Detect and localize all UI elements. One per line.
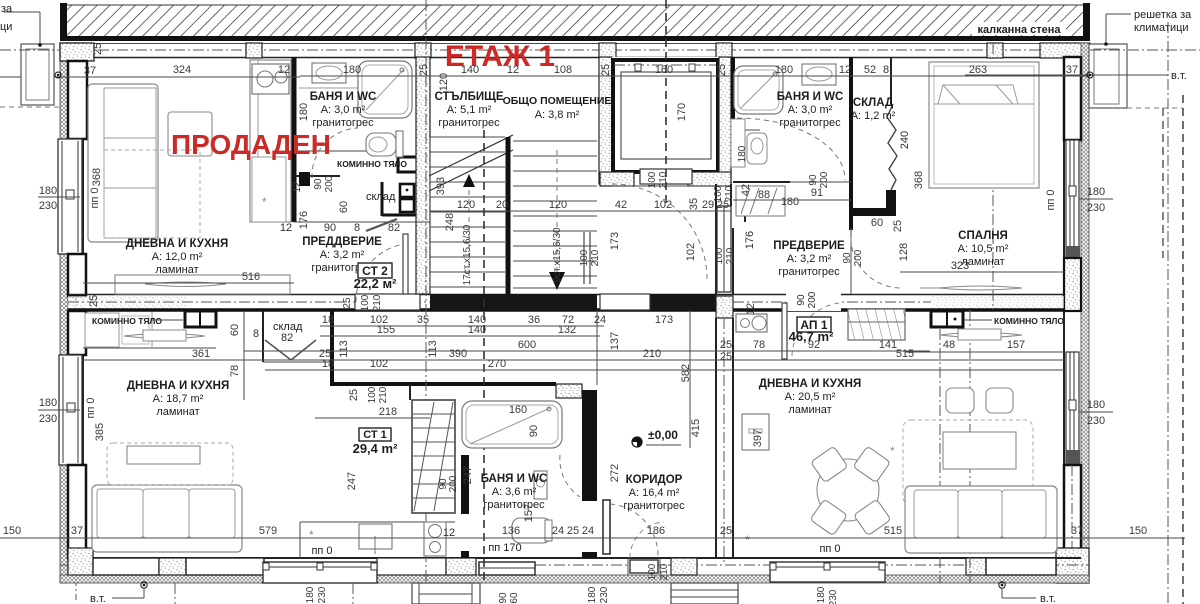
svg-text:25: 25 [567, 525, 579, 537]
svg-text:за: за [1, 3, 13, 15]
svg-text:склад: склад [366, 191, 396, 203]
svg-text:20: 20 [496, 199, 508, 211]
svg-text:25: 25 [720, 351, 732, 363]
svg-text:СТЪЛБИЩЕ: СТЪЛБИЩЕ [434, 91, 503, 103]
stair left wall [416, 57, 430, 294]
rotated dims upper [85, 73, 1057, 441]
svg-text:25: 25 [600, 64, 612, 76]
svg-text:9ст.х15,6/30: 9ст.х15,6/30 [552, 227, 563, 283]
svg-text:пп 0: пп 0 [1045, 189, 1057, 210]
svg-text:210: 210 [725, 247, 736, 264]
bedroom right wall items: window ledge [900, 271, 1064, 273]
svg-text:113: 113 [338, 340, 350, 358]
svg-text:ОБЩО ПОМЕЩЕНИЕ: ОБЩО ПОМЕЩЕНИЕ [503, 95, 612, 107]
svg-text:120: 120 [457, 199, 475, 211]
AP1 coffee table [943, 432, 1016, 469]
svg-text:пп 0: пп 0 [85, 397, 97, 418]
svg-text:247: 247 [462, 466, 474, 484]
svg-text:230: 230 [39, 413, 57, 425]
svg-text:90: 90 [796, 294, 807, 306]
svg-text:пп 0: пп 0 [311, 545, 332, 557]
svg-text:136: 136 [502, 525, 520, 537]
svg-text:гранитогрес: гранитогрес [483, 499, 545, 511]
svg-text:СПАЛНЯ: СПАЛНЯ [958, 230, 1008, 242]
door leaf sklad [366, 219, 397, 231]
svg-text:60: 60 [871, 217, 883, 229]
CT1 label box [353, 428, 398, 456]
svg-text:90: 90 [808, 174, 819, 186]
bath36 left wall [461, 455, 469, 558]
svg-text:180: 180 [737, 145, 748, 162]
svg-text:в.т.: в.т. [1040, 593, 1056, 604]
svg-text:218: 218 [379, 406, 397, 418]
svg-text:ламинат: ламинат [155, 264, 198, 276]
svg-text:ламинат: ламинат [156, 406, 199, 418]
top wall piers (stippled) [60, 43, 1090, 58]
svg-text:29: 29 [702, 199, 714, 211]
svg-text:173: 173 [655, 314, 673, 326]
svg-text:КОРИДОР: КОРИДОР [626, 474, 683, 486]
svg-text:272: 272 [609, 464, 621, 482]
dining table top (left apt, at wall) [115, 275, 290, 294]
svg-text:22,2 м²: 22,2 м² [354, 276, 398, 291]
dashed rug [104, 150, 200, 238]
svg-text:324: 324 [173, 64, 191, 76]
svg-text:А: 16,4 m²: А: 16,4 m² [629, 487, 680, 499]
svg-text:200: 200 [807, 291, 818, 308]
svg-text:180: 180 [587, 586, 598, 603]
svg-text:8: 8 [253, 328, 259, 340]
party wall hatched band (top) [60, 3, 1090, 41]
svg-text:52: 52 [864, 64, 876, 76]
svg-text:180: 180 [343, 64, 361, 76]
misc leader: left window labels [0, 0, 1, 1]
vent shafts [400, 184, 414, 212]
svg-text:180: 180 [1087, 186, 1105, 198]
svg-text:25: 25 [720, 525, 732, 537]
right margin dims [1079, 186, 1113, 427]
chimney body (left apt) [299, 88, 417, 186]
CT1 inner stair [412, 400, 455, 513]
svg-text:180: 180 [298, 103, 310, 121]
svg-text:82: 82 [388, 222, 400, 234]
svg-text:25: 25 [716, 64, 728, 76]
shower glass (right bath) [736, 186, 785, 216]
svg-text:90: 90 [498, 592, 509, 604]
svg-text:25: 25 [342, 297, 353, 309]
svg-text:102: 102 [654, 199, 672, 211]
sklad (left apt) walls [366, 182, 416, 216]
svg-text:решетка за: решетка за [1134, 9, 1192, 21]
level mark [632, 428, 681, 447]
svg-text:гранитогрес: гранитогрес [312, 117, 374, 129]
svg-text:±0,00: ±0,00 [648, 428, 678, 442]
svg-text:210: 210 [643, 348, 661, 360]
section axis through bedroom [992, 43, 994, 310]
svg-text:210: 210 [658, 171, 669, 188]
svg-text:24: 24 [594, 314, 606, 326]
stair right wall / elevator left [599, 57, 612, 184]
svg-text:ци: ци [0, 21, 12, 33]
svg-text:А: 3,2 m²: А: 3,2 m² [787, 253, 832, 265]
svg-text:141: 141 [879, 339, 897, 351]
svg-text:БАНЯ И WC: БАНЯ И WC [310, 91, 377, 103]
svg-text:579: 579 [259, 525, 277, 537]
svg-text:*: * [309, 528, 314, 542]
svg-text:А: 10,5 m²: А: 10,5 m² [958, 243, 1009, 255]
bath36 right wall [582, 390, 597, 501]
svg-text:90: 90 [528, 425, 540, 437]
svg-text:155: 155 [377, 324, 395, 336]
svg-text:263: 263 [969, 64, 987, 76]
svg-text:90: 90 [842, 252, 853, 264]
bed [929, 62, 1039, 188]
svg-text:368: 368 [91, 168, 103, 186]
right bath / sklad separator [849, 57, 853, 230]
svg-text:12: 12 [280, 222, 292, 234]
svg-text:12: 12 [443, 527, 455, 539]
svg-text:*: * [890, 444, 895, 458]
svg-text:230: 230 [828, 589, 839, 604]
svg-text:12: 12 [745, 303, 757, 315]
svg-text:8: 8 [354, 222, 360, 234]
svg-text:120: 120 [549, 199, 567, 211]
svg-text:600: 600 [518, 339, 536, 351]
svg-text:БАНЯ И WC: БАНЯ И WC [481, 473, 548, 485]
left apt: kitchen column [250, 60, 291, 222]
svg-text:230: 230 [317, 586, 328, 603]
bath36 top pier [556, 384, 582, 398]
staircase flight left [430, 137, 505, 290]
svg-text:230: 230 [1087, 415, 1105, 427]
svg-text:397: 397 [752, 429, 764, 447]
svg-text:180: 180 [816, 586, 827, 603]
left margin dims [38, 185, 80, 425]
lower-left closet (sklad 82) [263, 311, 330, 362]
AP1 dashed rug [903, 420, 1033, 505]
svg-text:12: 12 [292, 181, 303, 193]
svg-text:60: 60 [509, 592, 520, 604]
right apt: bath bottom wall [733, 130, 851, 182]
svg-text:91: 91 [811, 187, 823, 199]
AP1 armchairs [946, 388, 1013, 413]
bath36 fixtures [462, 401, 562, 543]
svg-text:60: 60 [229, 324, 241, 336]
svg-text:157: 157 [523, 504, 535, 522]
svg-text:240: 240 [899, 131, 911, 149]
stair down arrow [549, 150, 565, 290]
label: kalkanna stena [972, 22, 1066, 36]
svg-text:170: 170 [676, 103, 688, 121]
lower-left coffee table [127, 446, 200, 464]
svg-text:А: 3,0 m²: А: 3,0 m² [788, 104, 833, 116]
svg-text:180: 180 [305, 586, 316, 603]
right exterior wall insulation [1064, 43, 1089, 583]
svg-text:100: 100 [579, 249, 590, 266]
svg-text:18: 18 [322, 358, 334, 370]
right window W4 [1066, 352, 1080, 465]
top exterior wall band with centerline [60, 44, 1090, 58]
svg-text:150: 150 [1129, 525, 1147, 537]
svg-text:ПРОДАДЕН: ПРОДАДЕН [171, 129, 331, 160]
svg-text:92: 92 [808, 339, 820, 351]
svg-text:82: 82 [281, 332, 293, 344]
svg-text:176: 176 [744, 231, 756, 249]
svg-text:180: 180 [775, 64, 793, 76]
svg-text:ДНЕВНА И КУХНЯ: ДНЕВНА И КУХНЯ [126, 238, 228, 250]
svg-text:37: 37 [1071, 525, 1083, 537]
svg-text:186: 186 [647, 525, 665, 537]
left wall block below middle wall [68, 311, 86, 355]
svg-text:18: 18 [322, 314, 334, 326]
svg-text:37: 37 [71, 525, 83, 537]
svg-text:140: 140 [461, 64, 479, 76]
svg-text:173: 173 [609, 232, 621, 250]
right window W3 [1066, 140, 1080, 259]
section centerline [425, 0, 427, 604]
svg-text:КОМИННО ТЯЛО: КОМИННО ТЯЛО [994, 316, 1064, 326]
svg-text:*: * [262, 195, 267, 209]
svg-text:385: 385 [94, 423, 106, 441]
svg-text:210: 210 [372, 294, 383, 311]
stair mid wall [506, 137, 511, 294]
svg-text:210: 210 [378, 386, 389, 403]
svg-text:100: 100 [367, 386, 378, 403]
svg-text:ламинат: ламинат [788, 404, 831, 416]
svg-text:368: 368 [913, 171, 925, 189]
svg-text:36: 36 [528, 314, 540, 326]
elevator shaft [600, 57, 731, 186]
svg-text:ПРЕДВЕРИЕ: ПРЕДВЕРИЕ [773, 240, 845, 252]
svg-text:100: 100 [647, 171, 658, 188]
svg-text:140: 140 [468, 324, 486, 336]
svg-text:А: 12,0 m²: А: 12,0 m² [152, 251, 203, 263]
svg-text:90: 90 [313, 178, 324, 190]
svg-text:270: 270 [488, 358, 506, 370]
svg-text:пп 0: пп 0 [819, 543, 840, 555]
svg-text:БАНЯ И WC: БАНЯ И WC [777, 91, 844, 103]
svg-text:128: 128 [898, 243, 910, 261]
AP1 fridge [742, 414, 769, 450]
right wall block top [1064, 57, 1081, 140]
svg-text:176: 176 [298, 211, 310, 229]
svg-text:132: 132 [558, 324, 576, 336]
AP1 entry door [782, 291, 841, 359]
svg-text:180: 180 [39, 185, 57, 197]
right margin vertical lines [1163, 22, 1183, 604]
svg-text:160: 160 [509, 404, 527, 416]
svg-text:*: * [745, 533, 750, 547]
folding door zigzag (sklad) [887, 104, 897, 190]
svg-text:25: 25 [92, 43, 104, 55]
svg-text:78: 78 [229, 365, 241, 377]
svg-text:390: 390 [449, 348, 467, 360]
svg-text:25: 25 [892, 220, 904, 232]
corridor right wall (to AP1) [716, 296, 733, 565]
left bath fixtures [312, 61, 412, 118]
svg-text:516: 516 [242, 271, 260, 283]
svg-text:102: 102 [685, 243, 697, 261]
svg-text:калканна стена: калканна стена [977, 24, 1061, 36]
door swing arcs (dashed) [312, 118, 901, 497]
svg-text:25: 25 [418, 64, 430, 76]
svg-text:12: 12 [839, 64, 851, 76]
bottom exterior wall [60, 558, 1090, 583]
svg-text:А: 3,0 m²: А: 3,0 m² [321, 104, 366, 116]
svg-text:гранитогрес: гранитогрес [438, 117, 500, 129]
right bath fixtures [731, 64, 836, 167]
svg-text:230: 230 [1087, 202, 1105, 214]
svg-text:247: 247 [346, 472, 358, 490]
svg-text:СКЛАД: СКЛАД [853, 97, 893, 109]
wall right of elevator corridor [666, 0, 731, 294]
svg-text:климатици: климатици [1134, 22, 1189, 34]
svg-text:248: 248 [444, 213, 456, 231]
svg-text:137: 137 [609, 332, 621, 350]
svg-text:88: 88 [758, 189, 770, 201]
CT1 top-left wall horizontal [332, 382, 556, 386]
svg-text:323: 323 [951, 260, 969, 272]
svg-text:180: 180 [39, 397, 57, 409]
svg-text:515: 515 [884, 525, 902, 537]
lower-left rug dashed [107, 443, 233, 485]
right AC grille box [1089, 9, 1200, 108]
svg-text:113: 113 [427, 340, 439, 358]
svg-text:25: 25 [88, 295, 100, 307]
svg-text:24: 24 [552, 525, 564, 537]
svg-text:100: 100 [647, 563, 658, 580]
svg-text:гранитогрес: гранитогрес [623, 500, 685, 512]
svg-text:гранитогрес: гранитогрес [778, 266, 840, 278]
svg-text:пп 0: пп 0 [89, 187, 101, 208]
svg-text:гранитогрес: гранитогрес [779, 117, 841, 129]
left window W2 [59, 355, 82, 465]
svg-text:в.т.: в.т. [1171, 70, 1187, 82]
stair up arrow [463, 174, 475, 277]
left exterior wall insulation [60, 43, 83, 600]
left AC grille box [0, 3, 60, 107]
svg-text:12: 12 [278, 64, 290, 76]
left corner pier top [60, 43, 94, 61]
svg-text:КОМИННО ТЯЛО: КОМИННО ТЯЛО [92, 316, 162, 326]
svg-text:42: 42 [740, 184, 752, 196]
lower-left sofa [92, 485, 242, 552]
svg-text:А: 5,1 m²: А: 5,1 m² [447, 104, 492, 116]
svg-text:160: 160 [655, 64, 673, 76]
interior wall: left apt bath/living separator [292, 57, 297, 222]
wall: bath bottom / chimney row (left apt) [294, 151, 399, 176]
svg-text:25: 25 [717, 199, 729, 211]
svg-text:29,4 m²: 29,4 m² [353, 441, 398, 456]
svg-text:230: 230 [39, 200, 57, 212]
svg-text:230: 230 [599, 586, 610, 603]
AP1 sofa [905, 486, 1057, 553]
bottom wall piers and windows [68, 548, 1056, 583]
svg-text:25: 25 [720, 339, 732, 351]
svg-text:515: 515 [896, 348, 914, 360]
entry steps outside [671, 583, 738, 604]
svg-text:А: 3,8 m²: А: 3,8 m² [535, 109, 580, 121]
svg-text:37: 37 [84, 65, 96, 77]
svg-text:35: 35 [417, 314, 429, 326]
svg-text:78: 78 [753, 339, 765, 351]
stair dims [430, 187, 883, 229]
bedside shelf bottom [920, 286, 1022, 290]
svg-text:42: 42 [615, 199, 627, 211]
svg-text:200: 200 [324, 175, 335, 192]
svg-text:157: 157 [1007, 339, 1025, 351]
svg-text:А: 18,7 m²: А: 18,7 m² [153, 393, 204, 405]
svg-text:180: 180 [1087, 399, 1105, 411]
svg-text:120: 120 [438, 73, 450, 91]
svg-text:25: 25 [348, 389, 360, 401]
section cut dashed line [483, 130, 485, 583]
AP1 kitchen row [736, 309, 1064, 352]
svg-text:48: 48 [943, 339, 955, 351]
svg-text:24: 24 [582, 525, 594, 537]
corridor entry door bottom [628, 522, 664, 575]
left apt sofa [88, 84, 158, 242]
right wall block bottom [1056, 465, 1089, 583]
svg-text:12: 12 [507, 64, 519, 76]
svg-text:ПРЕДДВЕРИЕ: ПРЕДДВЕРИЕ [302, 236, 382, 248]
CT2 label box [354, 263, 398, 291]
CT1 right vertical to kitchen [409, 384, 411, 400]
right apt bath left wall [731, 57, 735, 130]
CT1 left wall [330, 310, 334, 386]
svg-text:8: 8 [883, 64, 889, 76]
svg-text:200: 200 [819, 171, 830, 188]
AP1 label box [789, 317, 834, 344]
svg-text:102: 102 [370, 358, 388, 370]
stair break line [429, 135, 513, 191]
svg-text:А: 3,2 m²: А: 3,2 m² [320, 249, 365, 261]
svg-text:180: 180 [781, 196, 799, 208]
svg-text:37: 37 [1066, 64, 1078, 76]
svg-text:150: 150 [3, 525, 21, 537]
left window W1 (pp 0 180/230) [58, 139, 82, 254]
terrace steps below CT1 [412, 583, 480, 604]
coffee table [168, 112, 212, 156]
bottom v.t. markers [90, 582, 1056, 604]
svg-text:210: 210 [659, 563, 670, 580]
svg-text:200: 200 [448, 475, 459, 492]
svg-text:35: 35 [688, 198, 700, 210]
lower-left kitchen row [83, 311, 216, 348]
svg-text:100: 100 [360, 294, 371, 311]
CT1 kitchen bottom [300, 522, 455, 558]
CT2 entry door in middle wall [355, 294, 420, 310]
svg-text:СТ 1: СТ 1 [363, 429, 387, 441]
svg-text:ДНЕВНА И КУХНЯ: ДНЕВНА И КУХНЯ [127, 380, 229, 392]
svg-text:пп 170: пп 170 [488, 542, 521, 554]
left wall block below W1 [68, 254, 86, 296]
svg-text:А: 20,5 m²: А: 20,5 m² [785, 391, 836, 403]
bottom dims [0, 260, 1185, 604]
svg-text:393: 393 [435, 177, 447, 195]
left wall block bottom corner [68, 465, 93, 576]
svg-text:361: 361 [192, 348, 210, 360]
right preddverie walls [733, 215, 851, 294]
staircase flight right [513, 141, 597, 288]
v.t. level right [965, 70, 1187, 82]
svg-text:А: 3,6 m²: А: 3,6 m² [492, 486, 537, 498]
AP1 round dining table [810, 446, 891, 536]
dim verticals lower [244, 310, 764, 539]
svg-text:108: 108 [554, 64, 572, 76]
preddverie door dims left apt [294, 222, 430, 234]
svg-text:в.т.: в.т. [90, 593, 106, 604]
